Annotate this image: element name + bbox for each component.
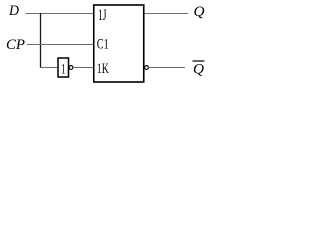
inverter U2 box xyxy=(58,58,69,77)
wire branch horizontal to inverter input xyxy=(40,67,58,69)
svg-text:1K: 1K xyxy=(97,61,109,77)
svg-text:C1: C1 xyxy=(97,37,109,53)
wire vertical branch from D node down xyxy=(40,13,42,68)
input label D xyxy=(8,3,19,19)
svg-text:1: 1 xyxy=(61,62,66,78)
wire Qbar output xyxy=(149,67,186,69)
output label Qbar xyxy=(193,61,205,78)
flip-flop U1 box xyxy=(94,5,144,82)
svg-text:1J: 1J xyxy=(98,7,107,24)
inversion bubble on U2 output xyxy=(69,66,73,70)
svg-text:Q: Q xyxy=(193,62,204,78)
pin label 1K xyxy=(97,61,109,77)
input label CP xyxy=(6,37,25,53)
wire D to 1J pin xyxy=(26,13,94,15)
inversion bubble on Qbar output xyxy=(145,66,149,70)
inverter U2 label 1 xyxy=(61,62,66,78)
wire CP to C1 pin xyxy=(27,44,93,46)
wire U2 output to 1K pin xyxy=(73,67,93,69)
svg-text:Q: Q xyxy=(194,4,205,20)
pin label C1 xyxy=(97,37,109,53)
svg-text:CP: CP xyxy=(6,37,25,53)
wire Q output xyxy=(145,13,189,15)
output label Q xyxy=(194,4,205,20)
pin label 1J xyxy=(98,7,107,24)
svg-text:D: D xyxy=(8,3,19,19)
